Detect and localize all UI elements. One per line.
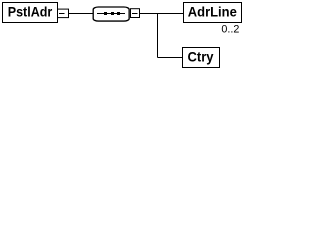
element AdrLine xyxy=(184,3,242,23)
svg-text:PstlAdr: PstlAdr xyxy=(8,4,53,20)
expand button on PstlAdr xyxy=(58,9,69,18)
wire PstlAdr to sequence xyxy=(69,13,94,15)
expand button on sequence xyxy=(131,9,140,18)
element PstlAdr xyxy=(3,3,58,23)
svg-text:Ctry: Ctry xyxy=(188,49,214,65)
element Ctry xyxy=(183,48,220,68)
svg-text:AdrLine: AdrLine xyxy=(188,4,237,20)
wire vertical branch xyxy=(157,14,159,58)
wire sequence to AdrLine xyxy=(140,13,184,15)
svg-text:0..2: 0..2 xyxy=(221,24,239,36)
sequence compositor xyxy=(93,7,129,21)
wire branch to Ctry xyxy=(158,57,183,59)
